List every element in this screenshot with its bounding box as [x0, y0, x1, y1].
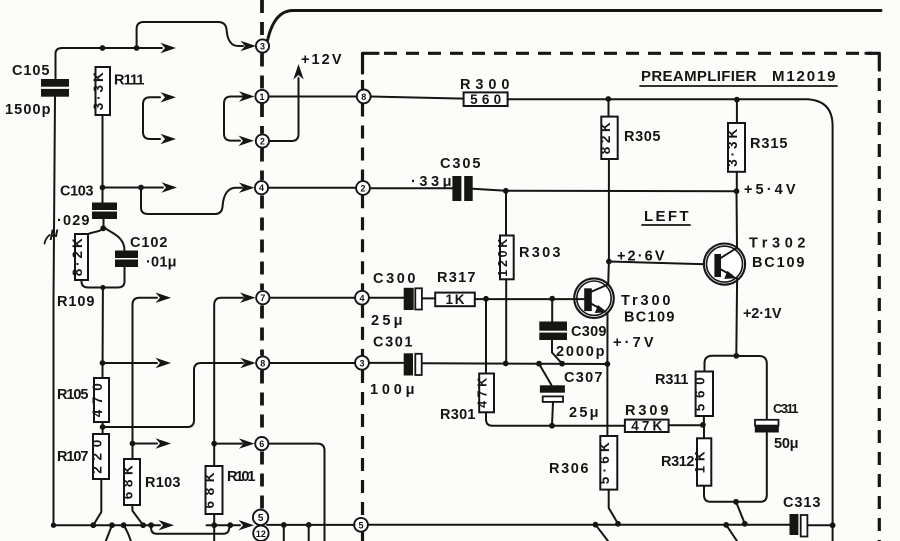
capacitor C311 electrolytic: [755, 420, 779, 426]
wire: plug-side bracket pins 1-2: [143, 97, 160, 139]
wire: connector7 row to box pin: [269, 297, 355, 299]
wire: connector 6 output down past bus: [268, 444, 324, 541]
svg-text:560: 560: [693, 377, 708, 411]
box pin circle 2: [356, 181, 370, 195]
capacitor C305: [452, 176, 461, 201]
wire: C309 bottom kink to AC row: [552, 340, 562, 364]
transistor Tr300 BC109: [574, 278, 614, 318]
wire: R111 bottom lead to C103: [102, 115, 104, 203]
svg-text:6: 6: [259, 439, 264, 449]
arrow: stub row y48: [161, 43, 177, 53]
wire: R301 feed down: [485, 299, 487, 374]
svg-text:220: 220: [89, 440, 104, 474]
capacitor C105: [41, 79, 69, 87]
svg-text:R317: R317: [437, 270, 476, 286]
wire: R312 bottom to shared node: [704, 486, 736, 502]
wire: R311 bottom lead: [703, 416, 705, 425]
wire: C103 bottom lead and Y split: [103, 219, 105, 226]
node: junction connector6 branch: [211, 441, 217, 447]
node: junction R105 top / row8 stub: [100, 360, 106, 366]
node: junction R303 top: [503, 188, 509, 194]
svg-text:47K: 47K: [631, 418, 662, 433]
resistor R315 3.3K: [728, 123, 745, 172]
wire: drop 1 below bus: [283, 525, 285, 541]
transistor Tr302 BC109: [704, 244, 745, 285]
arrow: bus stub: [159, 520, 175, 530]
node: junction emitter row: [605, 361, 611, 367]
svg-text:3: 3: [260, 42, 265, 52]
wire: C300 to R317: [422, 297, 435, 299]
svg-text:·029: ·029: [57, 213, 90, 229]
wire: box pin 3 to C301: [369, 362, 404, 364]
capacitor C309: [551, 299, 553, 322]
wire: box pin 2 to C305: [371, 187, 452, 189]
svg-text:1K: 1K: [446, 292, 465, 307]
wire: C307 top diagonal: [539, 364, 551, 385]
capacitor C307 electrolytic: [540, 385, 565, 392]
resistor R312 1K: [697, 438, 711, 485]
node: bus junction blade R306: [615, 521, 621, 527]
svg-text:+5·4V: +5·4V: [744, 182, 796, 198]
arrow: bracket bottom stub: [161, 134, 177, 144]
resistor R305 82K: [601, 117, 617, 159]
wire: C305 output row to +5.4V node: [473, 189, 737, 191]
svg-text:25μ: 25μ: [569, 405, 599, 421]
box pin circle 4: [355, 291, 369, 305]
wire: branch right then up to connector 8: [103, 363, 243, 427]
svg-text:μ: μ: [49, 224, 59, 240]
resistor R103 68K: [124, 459, 140, 505]
svg-text:C311: C311: [773, 401, 799, 416]
node: bus junction R101: [211, 522, 217, 528]
svg-text:R101: R101: [227, 469, 256, 485]
wire: R315 bottom lead to +5.4V node: [736, 172, 738, 191]
arrow: into connector 2: [239, 136, 255, 146]
arrow: into connector 4: [239, 183, 255, 193]
wire: input row y48 from R111 top to stub: [96, 47, 162, 49]
svg-text:3·3K: 3·3K: [725, 129, 740, 167]
svg-text:C305: C305: [440, 156, 481, 172]
node: junction R111 top: [100, 45, 106, 51]
svg-text:5: 5: [358, 520, 363, 530]
wire: R107 bottom switch blade to bus: [93, 479, 101, 525]
wire: C105 bottom lead down to bottom bus: [54, 97, 56, 526]
wire: Tr300 emitter lead down: [606, 313, 608, 436]
svg-text:R301: R301: [440, 407, 476, 423]
svg-text:C102: C102: [130, 235, 168, 251]
node: bus junction R107 blade: [90, 522, 96, 528]
svg-text:R305: R305: [624, 129, 661, 145]
svg-text:25μ: 25μ: [371, 313, 403, 329]
node: junction C309 branch: [559, 361, 565, 367]
wire: R103 bottom switch blade to bus: [132, 505, 143, 525]
box pin circle 5: [354, 518, 368, 532]
svg-text:3·3K: 3·3K: [91, 72, 106, 110]
wire: R312 top lead: [703, 425, 705, 438]
wire: box pin 8 to R300: [371, 97, 464, 99]
wire: bottom bus segment B: [207, 524, 241, 526]
connector circle 6: [255, 437, 268, 450]
wire: row y363 stub: [103, 362, 158, 364]
svg-text:4: 4: [259, 183, 264, 193]
connector circle 4: [255, 181, 268, 194]
svg-text:2: 2: [360, 184, 365, 194]
wire: C105 top lead up to input row: [56, 48, 97, 80]
wire: box pin 4 to C300: [369, 297, 404, 299]
svg-text:R311: R311: [655, 372, 689, 388]
wire: branch into connector 6: [214, 443, 242, 445]
svg-text:68K: 68K: [202, 472, 217, 508]
arrow: into connector 7: [240, 293, 256, 303]
arrow: into connector 1: [239, 91, 255, 101]
wire: socket-side line to connectors 7 and 6: [214, 298, 243, 466]
node: junction loop3 start: [134, 45, 140, 51]
wire: +2.6V row to Tr302 base: [609, 262, 715, 265]
svg-text:R315: R315: [750, 136, 788, 152]
arrow: bracket top stub: [161, 92, 177, 102]
capacitor C102: [115, 251, 138, 259]
node: bus junction w/ lower tail: [109, 522, 115, 528]
resistor R109 8.2K preset: [75, 234, 88, 280]
svg-text:3: 3: [359, 358, 364, 368]
resistor R306 5.6K: [600, 436, 617, 490]
node: bus junction supply rail: [830, 522, 836, 528]
wire: dip bypass under arrow: [151, 525, 230, 534]
node: junction R301 top: [483, 296, 489, 302]
wire: R305 bottom lead to Tr300 collector: [608, 159, 610, 262]
capacitor C103: [92, 203, 117, 211]
wire: R303 bottom lead: [505, 279, 507, 363]
resistor R107 220: [93, 434, 109, 479]
svg-text:5: 5: [258, 513, 264, 524]
dashed connector separation line: [260, 0, 264, 39]
wire: R105 bottom to R107 top: [102, 422, 104, 434]
node: junction Tr300 collector / +2.6V: [606, 259, 612, 265]
resistor R300 560: [464, 92, 508, 106]
arrow: into connectors 5/12: [239, 520, 255, 530]
svg-text:47K: 47K: [476, 378, 490, 408]
svg-text:82K: 82K: [598, 122, 613, 154]
resistor R311 560: [696, 372, 713, 417]
connector circle 1: [255, 90, 268, 103]
svg-text:68K: 68K: [120, 465, 135, 499]
node: bus junction at R306: [593, 522, 599, 528]
arrow: into connector 8: [240, 358, 256, 368]
svg-text:+2·1V: +2·1V: [743, 306, 782, 322]
node: bus junction dip start: [148, 522, 154, 528]
wire: R303 top lead: [505, 191, 507, 236]
svg-text:470: 470: [90, 383, 105, 417]
node: bus junction drop 2: [306, 522, 312, 528]
capacitor C313: [790, 514, 799, 535]
svg-text:+·7V: +·7V: [613, 335, 654, 351]
node: bus junction R103 blade: [140, 522, 146, 528]
resistor R105 470: [94, 378, 109, 422]
node: junction R303 bottom: [503, 361, 509, 367]
svg-text:120K: 120K: [496, 239, 510, 277]
wire: supply rail to right and down: [508, 99, 833, 541]
node: bus junction drop 1: [281, 522, 287, 528]
wire: chassis top rail: [268, 11, 882, 41]
arrow: stub row y297: [156, 293, 172, 303]
wire: socket-side bracket joining connectors 1-2: [224, 97, 243, 141]
capacitor C301 electrolytic: [404, 353, 413, 375]
svg-text:8: 8: [361, 92, 366, 102]
node: junction C307 branch: [536, 361, 542, 367]
node: bus junction blade Tr302 side: [742, 521, 748, 527]
wire: +2.1V node to C311: [736, 356, 767, 420]
svg-text:50μ: 50μ: [774, 436, 799, 452]
wire: row y187 stub: [103, 187, 164, 189]
wire: switch tail below bus: [726, 525, 737, 541]
svg-text:R107: R107: [57, 449, 89, 465]
svg-text:1: 1: [259, 92, 264, 102]
arrow: stub row y443: [156, 438, 172, 448]
connector circle 3: [256, 39, 269, 52]
wire: AC row C301 to emitter: [422, 362, 607, 365]
arrow: into connector 3: [241, 41, 257, 51]
svg-text:C309: C309: [571, 324, 607, 340]
preamp box dashed outline: [363, 53, 379, 73]
wire: +2.1V node to R311: [705, 356, 737, 372]
capacitor C300 electrolytic: [404, 288, 414, 310]
wire: R109 bottom curve to mid junction: [82, 280, 103, 288]
svg-text:8·2K: 8·2K: [70, 238, 85, 276]
wire: switch tail below bus curved: [124, 525, 131, 541]
wire: Tr302 collector lead up to +5.4V: [736, 191, 739, 248]
wire: Tr300 collector rim link: [607, 262, 610, 285]
wire: R306 bottom switch blade: [609, 490, 618, 524]
node: bus junction left end: [51, 523, 56, 528]
node: junction row y443 stub: [130, 441, 136, 447]
connector circle 2: [256, 134, 269, 147]
svg-text:Tr300: Tr300: [621, 293, 671, 309]
svg-text:C103: C103: [60, 184, 94, 200]
wire: C311 bottom to shared node: [736, 433, 767, 502]
svg-text:R303: R303: [519, 245, 561, 261]
svg-text:+12V: +12V: [301, 52, 342, 68]
wire: R317 to Tr300 base: [475, 298, 584, 300]
connector circle 5: [253, 510, 268, 525]
svg-text:2: 2: [260, 137, 265, 147]
node: bus junction: [121, 522, 127, 528]
svg-text:M12019: M12019: [772, 68, 836, 85]
wire: R305 top lead: [608, 99, 610, 117]
connector circle 12: [253, 526, 268, 541]
node: bus junction dip end: [227, 522, 233, 528]
wire: bottom bus segment E: [807, 524, 832, 526]
wire: mid vertical down to R105: [102, 288, 104, 379]
svg-text:7: 7: [260, 293, 265, 303]
wire: C102 bottom curve to mid junction: [103, 267, 125, 288]
wire: bottom bus segment A: [54, 524, 161, 526]
wire: bottom bus segment D: [368, 524, 790, 526]
node: junction Y split: [100, 225, 106, 231]
svg-text:2000p: 2000p: [556, 344, 605, 360]
wire: R101 bottom lead through bus: [213, 514, 215, 541]
resistor R309 47K: [625, 420, 669, 432]
wire: row y443 stub: [133, 443, 158, 445]
node: junction R315 top: [734, 97, 740, 103]
svg-text:R306: R306: [549, 461, 589, 477]
wire: Tr302 emitter lead down to +2.1V node: [735, 279, 738, 356]
box pin circle 3: [355, 356, 369, 370]
wire: connector8 row to box pin: [269, 362, 355, 364]
node: junction C307 bottom: [549, 423, 555, 429]
svg-text:8: 8: [260, 359, 265, 369]
wire: branch to R109 top: [82, 226, 104, 241]
svg-text:560: 560: [470, 92, 501, 107]
arrow: stub row y187: [162, 182, 178, 192]
svg-text:R111: R111: [114, 73, 145, 89]
wire: branch to C102 top: [104, 226, 125, 251]
svg-text:C301: C301: [373, 335, 413, 351]
svg-text:BC109: BC109: [624, 310, 675, 326]
node: junction C103 top / row4: [100, 185, 106, 191]
svg-text:R109: R109: [57, 294, 95, 310]
node: junction C309 top: [549, 296, 555, 302]
svg-text:5·6K: 5·6K: [597, 442, 612, 484]
wire: loop over to connector 3: [137, 22, 243, 48]
wire: R309 to R311/R312 junction: [669, 424, 703, 426]
wire: connector4 row to box pin: [268, 187, 356, 189]
node: junction +2.1V: [733, 353, 739, 359]
svg-text:C105: C105: [12, 63, 50, 79]
wire: loop under to connector 4: [141, 188, 242, 215]
connector circle 8: [256, 356, 269, 369]
wire: +12V riser from connector 2: [269, 78, 299, 141]
node: junction between R105/R107: [100, 424, 106, 430]
svg-text:PREAMPLIFIER: PREAMPLIFIER: [641, 68, 757, 85]
node: junction below R109/C102: [100, 285, 105, 290]
svg-text:C307: C307: [564, 370, 603, 386]
wire: drop 2 below bus: [308, 525, 310, 541]
node: junction R305 top: [605, 96, 611, 102]
wire: C307 bottom lead: [552, 402, 553, 426]
wire: bottom bus segment C: [267, 524, 355, 526]
connector circle 7: [256, 291, 269, 304]
wire: R315 top lead: [736, 100, 738, 123]
resistor R101 68K: [206, 466, 223, 514]
svg-text:·01μ: ·01μ: [146, 255, 177, 271]
svg-text:4: 4: [359, 293, 364, 303]
node: junction R311 bottom / R312 top: [700, 422, 706, 428]
wire: R301 bottom to R309 row: [486, 412, 625, 426]
svg-text:R312: R312: [661, 454, 695, 470]
resistor R303 120K: [500, 236, 514, 280]
wire: connector1 row to box pin: [269, 96, 357, 98]
wire: switch blade to bus: [736, 502, 745, 524]
svg-text:C300: C300: [373, 271, 416, 287]
resistor R317 1K: [435, 293, 475, 307]
wire: switch tail below bus: [596, 525, 609, 541]
resistor R111 3.3K: [96, 67, 111, 115]
node: junction +5.4V: [734, 188, 740, 194]
wire: switch tail below bus: [106, 525, 112, 541]
wire: mu swash tail: [45, 235, 50, 244]
svg-text:Tr302: Tr302: [749, 236, 806, 252]
resistor R301 47K: [479, 374, 494, 413]
node: junction loop4 start: [138, 185, 144, 191]
arrow: into connector 6: [239, 438, 255, 448]
svg-text:R105: R105: [57, 387, 89, 403]
wire: plug-side line for connectors 7/6: [133, 298, 158, 459]
svg-text:R103: R103: [145, 475, 181, 491]
svg-text:12: 12: [256, 529, 266, 539]
svg-text:C313: C313: [783, 495, 821, 511]
node: junction R312/C311: [733, 499, 739, 505]
svg-text:1500p: 1500p: [5, 102, 51, 118]
box pin circle 8: [357, 90, 371, 104]
svg-text:BC109: BC109: [752, 255, 805, 271]
arrow: stub row y363: [156, 358, 172, 368]
node: bus junction w/ tail: [723, 522, 729, 528]
arrow: +12V up: [293, 64, 303, 80]
